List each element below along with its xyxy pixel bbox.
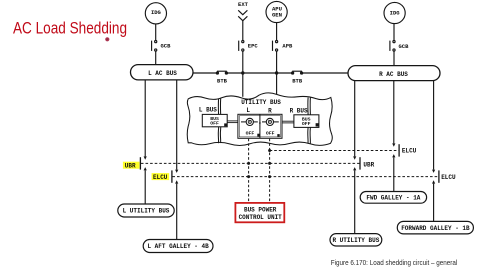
wire APU junction down to utility panel bbox=[276, 73, 278, 94]
svg-text:BTB: BTB bbox=[292, 78, 303, 85]
bus L AC BUS stadium bbox=[131, 65, 194, 80]
svg-text:GCB: GCB bbox=[161, 43, 172, 50]
contactor ELCU left bbox=[172, 170, 178, 184]
svg-text:UTILITY BUS: UTILITY BUS bbox=[241, 99, 281, 106]
svg-text:OFF: OFF bbox=[302, 121, 311, 127]
breaker GCB-R bbox=[390, 41, 395, 52]
generator IDG left circle bbox=[145, 3, 166, 24]
node EXT chevron symbol bbox=[238, 10, 247, 20]
wire main tie bus left segment bbox=[193, 72, 216, 74]
svg-text:UBR: UBR bbox=[125, 163, 136, 170]
wire dashed vertical left from panel to BPCU bbox=[248, 139, 250, 203]
contactor ELCU right upper bbox=[392, 143, 399, 157]
svg-text:ELCU: ELCU bbox=[441, 174, 456, 181]
svg-text:ELCU: ELCU bbox=[153, 174, 168, 181]
wire GCB-L to L AC BUS bbox=[155, 51, 157, 65]
breaker BTB right bbox=[292, 71, 303, 74]
wire EPC to main bus bbox=[242, 51, 244, 73]
svg-text:Figure 6.170: Load shedding ci: Figure 6.170: Load shedding circuit – ge… bbox=[331, 258, 458, 267]
wire main tie bus right segment bbox=[303, 72, 348, 74]
wire ELCU outer down to FORWARD GALLEY bbox=[433, 184, 435, 222]
switch knob L bbox=[241, 118, 258, 125]
contactor UBR right bbox=[353, 156, 360, 170]
svg-text:IDG: IDG bbox=[390, 9, 401, 16]
svg-text:IDG: IDG bbox=[151, 9, 162, 16]
svg-text:L: L bbox=[246, 107, 250, 114]
indicator square R OFF bbox=[277, 134, 279, 137]
node dashed junction H2 left bbox=[247, 162, 250, 165]
node dashed junction H3 left bbox=[247, 175, 250, 178]
breaker EPC bbox=[239, 41, 244, 52]
panel tear break lines right pair bbox=[307, 98, 309, 144]
generator IDG right circle bbox=[384, 2, 405, 23]
module galley power control panel bbox=[238, 114, 282, 138]
panel UTILITY BUS wavy outline bbox=[187, 93, 332, 146]
svg-text:R BUS: R BUS bbox=[290, 107, 308, 114]
wire EXT junction down to utility panel bbox=[242, 73, 244, 97]
wire double link left box to module bbox=[227, 121, 238, 123]
svg-text:BUS POWER: BUS POWER bbox=[244, 207, 277, 214]
svg-text:L AC BUS: L AC BUS bbox=[148, 70, 177, 77]
wire EXT to EPC bbox=[242, 21, 244, 41]
breaker BTB left bbox=[216, 71, 227, 74]
wire ELCU contactor down to L AFT GALLEY bbox=[176, 184, 178, 240]
svg-text:L AFT GALLEY - 4B: L AFT GALLEY - 4B bbox=[147, 243, 209, 250]
wire GCB-R to R AC BUS bbox=[393, 51, 395, 66]
load FORWARD GALLEY - 1B stadium bbox=[397, 221, 473, 234]
highlight ELCU yellow bbox=[152, 173, 170, 180]
svg-text:FORWARD GALLEY - 1B: FORWARD GALLEY - 1B bbox=[401, 225, 470, 232]
wire APU to APB bbox=[276, 23, 278, 41]
svg-text:AC Load Shedding: AC Load Shedding bbox=[13, 19, 127, 37]
svg-text:CONTROL UNIT: CONTROL UNIT bbox=[239, 214, 283, 221]
wire R AC BUS down to ELCU contactor mid bbox=[393, 81, 395, 144]
node dashed junction H3 right bbox=[268, 175, 271, 178]
wire L AC BUS down to UBR contactor bbox=[144, 80, 146, 156]
breaker GCB-L bbox=[152, 41, 157, 52]
svg-text:EPC: EPC bbox=[248, 43, 259, 50]
svg-text:L BUS: L BUS bbox=[199, 107, 217, 114]
wire double link module to right box bbox=[282, 121, 294, 123]
switch box L BUS OFF bbox=[202, 114, 227, 126]
title asterisk bbox=[105, 37, 109, 41]
wire dashed control H2 UBR to UBR bbox=[141, 162, 360, 164]
svg-text:APB: APB bbox=[282, 43, 293, 50]
wire R AC BUS down to ELCU contactor outer bbox=[433, 81, 435, 170]
wire IDG-R to GCB-R bbox=[393, 24, 395, 41]
bus R AC BUS stadium bbox=[348, 66, 440, 81]
svg-text:GCB: GCB bbox=[399, 43, 410, 50]
svg-text:FWD GALLEY - 1A: FWD GALLEY - 1A bbox=[366, 195, 420, 202]
svg-text:EXT: EXT bbox=[238, 1, 249, 8]
wire UBR right down to R UTILITY BUS bbox=[354, 170, 356, 233]
svg-text:ELCU: ELCU bbox=[402, 148, 417, 155]
svg-text:GEN: GEN bbox=[272, 12, 282, 19]
wire APB to main bus bbox=[276, 51, 278, 73]
wire IDG-L to GCB-L bbox=[155, 24, 157, 41]
panel tear break lines left pair bbox=[217, 99, 219, 144]
node dashed junction H2 right bbox=[268, 162, 271, 165]
node junction EXT feed bbox=[241, 71, 244, 74]
unit BPCU red box bbox=[235, 203, 284, 222]
wire dashed control H3 ELCU to ELCU bbox=[172, 176, 438, 178]
svg-text:R AC BUS: R AC BUS bbox=[379, 71, 408, 78]
generator APU GEN circle bbox=[266, 1, 287, 22]
arrow selector mark bbox=[259, 123, 261, 125]
indicator square L OFF bbox=[257, 134, 259, 137]
contactor UBR left bbox=[140, 156, 146, 170]
svg-text:BTB: BTB bbox=[217, 78, 228, 85]
node dashed junction H1 bbox=[268, 149, 271, 152]
wire main tie bus center segment bbox=[228, 72, 292, 74]
svg-text:R UTILITY BUS: R UTILITY BUS bbox=[332, 237, 379, 244]
svg-text:OFF: OFF bbox=[246, 130, 255, 136]
svg-text:R: R bbox=[268, 107, 272, 114]
switch box R BUS OFF bbox=[294, 115, 319, 128]
wire ELCU mid down to FWD GALLEY bbox=[393, 157, 395, 191]
wire L AC BUS down to ELCU contactor bbox=[176, 80, 178, 170]
node junction APU feed bbox=[275, 71, 278, 74]
wire dashed control H1 to ELCU mid bbox=[270, 150, 399, 152]
load FWD GALLEY - 1A stadium bbox=[360, 192, 426, 204]
wire UBR contactor down to L UTILITY BUS bbox=[144, 170, 146, 204]
svg-text:L UTILITY BUS: L UTILITY BUS bbox=[123, 208, 170, 215]
svg-text:OFF: OFF bbox=[266, 130, 275, 136]
load L AFT GALLEY - 4B stadium bbox=[143, 240, 213, 253]
highlight UBR yellow bbox=[123, 162, 140, 169]
svg-text:OFF: OFF bbox=[210, 121, 219, 127]
bus R UTILITY BUS stadium bbox=[330, 234, 382, 246]
wire dashed vertical right from panel to BPCU bbox=[269, 139, 271, 203]
wire R AC BUS down to UBR contactor right bbox=[354, 81, 356, 157]
svg-text:UBR: UBR bbox=[363, 161, 374, 168]
bus L UTILITY BUS stadium bbox=[118, 204, 174, 217]
contactor ELCU right lower bbox=[432, 170, 439, 184]
switch knob R bbox=[262, 118, 279, 125]
breaker APB bbox=[273, 41, 278, 52]
